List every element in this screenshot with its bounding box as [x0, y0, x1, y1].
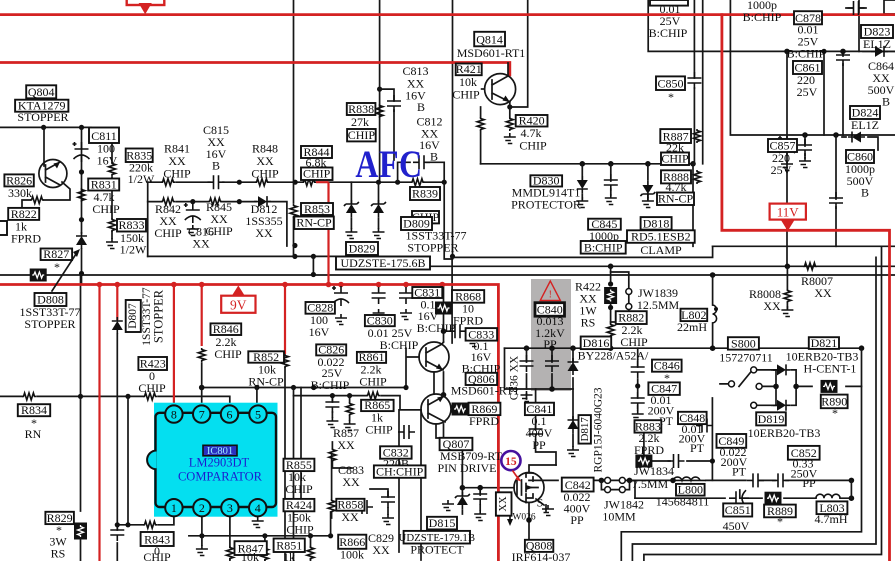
- svg-text:CHIP: CHIP: [286, 523, 314, 537]
- capacitor C830 label: [365, 315, 395, 326]
- wire: pin2 drop: [201, 516, 203, 545]
- svg-text:330k: 330k: [8, 186, 32, 200]
- svg-text:XX: XX: [192, 237, 210, 251]
- wire: left cap column: [116, 334, 118, 561]
- svg-text:BY228/A52A/: BY228/A52A/: [578, 349, 649, 363]
- junction: [79, 217, 84, 222]
- resistor R846 label: [211, 323, 242, 335]
- switch pole c: [751, 402, 757, 408]
- diode D824 label: [850, 106, 880, 119]
- svg-text:2: 2: [199, 501, 205, 515]
- wire: C840 leg: [551, 348, 553, 389]
- transistor Q804 label: [26, 85, 56, 98]
- wire: R890 row: [796, 385, 861, 387]
- svg-text:XX: XX: [498, 496, 509, 512]
- jumper JW1834 a: [605, 477, 611, 483]
- resistor R857a: [346, 402, 353, 416]
- svg-text:450V: 450V: [723, 519, 750, 533]
- resistor R869 label: [469, 403, 501, 415]
- capacitor C849 label: [717, 434, 747, 448]
- red branch: [116, 285, 118, 321]
- svg-text:CHIP: CHIP: [303, 167, 331, 181]
- svg-text:CHIP: CHIP: [154, 226, 182, 240]
- resistor R423 zigzag: [143, 393, 157, 400]
- resistor R420: [506, 117, 513, 131]
- junction: [859, 345, 865, 351]
- resistor R424 label: [284, 499, 315, 511]
- annotation arrow D808: [52, 254, 76, 291]
- capacitor C878 label: [794, 11, 822, 24]
- wire: long rail y246: [713, 245, 895, 247]
- svg-text:D807: D807: [127, 303, 139, 329]
- diode D808 label: [35, 293, 67, 306]
- junction: [608, 345, 614, 351]
- resistor R861 label: [357, 352, 386, 363]
- junction: [477, 485, 483, 491]
- net 11V: red feed right: [722, 15, 890, 561]
- capacitor C828 (polarized): [332, 286, 349, 306]
- wire: C845 leg: [610, 164, 612, 195]
- diode D807: [112, 317, 123, 334]
- ground: [373, 309, 385, 320]
- red supply box top: [127, 0, 165, 5]
- resistor R888: [694, 170, 701, 184]
- junction: [403, 385, 408, 390]
- svg-text:*: *: [54, 260, 60, 274]
- wire: R865 row to Q2 base: [294, 396, 422, 410]
- junction: [441, 392, 447, 398]
- op-amp U801 pin 2: [193, 499, 210, 516]
- capacitor C826 leg: [325, 396, 339, 413]
- junction: [79, 271, 84, 276]
- svg-text:PP: PP: [802, 476, 816, 490]
- svg-text:8: 8: [171, 408, 177, 422]
- wire: emitter resistor legs: [481, 107, 510, 164]
- svg-text:B:CHIP: B:CHIP: [584, 240, 623, 254]
- red branch R852: [284, 285, 286, 355]
- diode D812: [254, 196, 271, 207]
- resistor R834 label: [18, 404, 50, 416]
- junction: [670, 478, 676, 484]
- svg-text:RS: RS: [51, 547, 66, 561]
- svg-text:PROTECTOR: PROTECTOR: [511, 198, 581, 212]
- svg-text:EL1Z: EL1Z: [863, 37, 891, 51]
- svg-text:9V: 9V: [230, 298, 247, 313]
- op-amp U801 pin 5: [249, 405, 266, 422]
- junction: [293, 180, 298, 185]
- resistor R858 label: [336, 499, 364, 511]
- inductor L800 label: [676, 484, 705, 496]
- svg-text:RN-CP: RN-CP: [296, 216, 332, 230]
- diode D818 label: [641, 217, 672, 230]
- wire: D830 leg: [581, 164, 583, 199]
- wire: lower rail to protector diodes: [481, 163, 693, 165]
- resistor R882 2.2k: [607, 323, 614, 337]
- shaded hazard zone around C840: [531, 279, 571, 391]
- svg-text:4.7mH: 4.7mH: [815, 512, 848, 526]
- resistor R831 label: [88, 179, 119, 191]
- svg-text:15: 15: [505, 456, 517, 468]
- svg-text:1/2W: 1/2W: [128, 172, 155, 186]
- resistor R833 150k: [109, 218, 116, 232]
- junction: [442, 180, 447, 185]
- junction: [199, 533, 204, 538]
- switch pole d: [729, 381, 735, 387]
- wire: Q814 collector top: [510, 0, 528, 107]
- capacitor C841: [529, 423, 543, 440]
- resistor R827 label: [41, 249, 73, 261]
- svg-text:CHIP: CHIP: [285, 482, 313, 496]
- diode D816: [568, 358, 579, 375]
- zener D815: [455, 492, 470, 509]
- resistor R838 label: [347, 103, 376, 115]
- mosfet Q808: [514, 473, 544, 503]
- red branch pin8: [173, 285, 175, 406]
- junction: [311, 385, 316, 390]
- wire: R843 row: [117, 516, 174, 524]
- svg-text:PT: PT: [732, 465, 747, 479]
- capacitor C832 label: [380, 446, 412, 458]
- resistor R858: [328, 499, 335, 513]
- svg-text:B:CHIP: B:CHIP: [787, 47, 826, 61]
- resistor R822 label: [8, 208, 39, 220]
- wire: Q807 emitter chain: [434, 372, 445, 438]
- resistor R843 zigzag: [143, 521, 157, 528]
- svg-text:LM2903DT: LM2903DT: [189, 456, 250, 470]
- diode D807 label: [126, 300, 141, 332]
- capacitor C851 label: [723, 503, 752, 516]
- wire: R853 column from top: [293, 0, 295, 256]
- wire: D817 column: [572, 389, 574, 446]
- diode D830: [577, 176, 588, 193]
- svg-text:RGP15J-6040G23: RGP15J-6040G23: [593, 387, 605, 472]
- diode D819 label: [756, 412, 786, 425]
- wire: L802 column: [712, 275, 714, 348]
- junction: [441, 328, 447, 334]
- resistor R866 label: [338, 535, 366, 549]
- wire: R424 column: [300, 388, 302, 500]
- svg-text:145684811: 145684811: [656, 495, 710, 509]
- ground: [642, 197, 654, 208]
- junction: [311, 272, 316, 277]
- capacitor C850 label: [656, 76, 685, 90]
- svg-text:CHIP: CHIP: [519, 139, 547, 153]
- junction: [79, 125, 84, 130]
- capacitor C833 label: [466, 328, 498, 341]
- red arrow into rail: [139, 3, 152, 14]
- wire: R851 drop: [310, 536, 312, 561]
- svg-text:!: !: [549, 290, 552, 301]
- svg-text:D829: D829: [349, 242, 376, 256]
- resistor Q814 emitter left: [477, 117, 484, 131]
- op-amp U801 pin 7: [193, 405, 210, 422]
- wire: R841 C815 R848 row: [148, 181, 329, 183]
- svg-text:157270711: 157270711: [719, 351, 773, 365]
- svg-text:D821: D821: [811, 336, 838, 350]
- wire: C847 mid column: [637, 348, 639, 410]
- wire: R842 R845 D812 row: [148, 202, 287, 246]
- wire: JW1839 jumper column: [611, 272, 629, 322]
- svg-text:RD5.1ESB2: RD5.1ESB2: [631, 230, 691, 244]
- wire: D819 diode row: [772, 386, 796, 405]
- junction: [580, 161, 586, 167]
- svg-text:STOPPER: STOPPER: [152, 289, 166, 343]
- net 12V: top red rail: [0, 13, 895, 16]
- wire: R858 column: [331, 455, 333, 518]
- svg-text:D817: D817: [579, 417, 591, 442]
- switch S800 label: [728, 337, 759, 349]
- zener D811: [371, 200, 386, 217]
- resistor R831 4.7k: [78, 188, 85, 202]
- inductor L802 label: [681, 309, 708, 321]
- svg-text:R834: R834: [21, 403, 47, 417]
- boxed resistor R890: [821, 380, 838, 393]
- wire: C834 cap leg: [479, 488, 481, 510]
- transistor Q806 label: [466, 373, 498, 385]
- junction: [125, 394, 130, 399]
- svg-text:C836 XX: C836 XX: [509, 355, 521, 400]
- junction: [450, 254, 455, 259]
- resistor R839: [411, 179, 425, 186]
- capacitor C842 label: [562, 478, 594, 492]
- junction: [41, 125, 46, 130]
- junction L802 tap: [714, 307, 718, 311]
- switch pole b: [756, 383, 762, 389]
- resistor R844: [302, 179, 316, 186]
- svg-text:CH:CHIP: CH:CHIP: [376, 465, 424, 479]
- resistor R839 label: [410, 187, 440, 200]
- junction: [784, 49, 790, 55]
- capacitor C852: [772, 473, 789, 487]
- capacitor AFC coupling: [413, 155, 430, 169]
- svg-text:FPRD: FPRD: [469, 414, 499, 428]
- capacitor near C861 (polarized): [778, 136, 795, 156]
- ground C847: [632, 410, 644, 421]
- wire: C813/zener column: [379, 0, 381, 183]
- svg-text:B:CHIP: B:CHIP: [380, 338, 419, 352]
- red branch AFC: [316, 182, 329, 284]
- svg-text:D818: D818: [643, 216, 670, 230]
- capacitor C830: [372, 287, 386, 304]
- junction: [645, 161, 651, 167]
- capacitor C861 label: [793, 61, 822, 74]
- wire: C857 leg: [804, 135, 806, 158]
- wire: D818 leg: [647, 164, 649, 199]
- resistor R889 label: [764, 505, 796, 518]
- junction: [773, 384, 779, 390]
- transistor Q807 label: [440, 438, 473, 450]
- red branch: [98, 285, 100, 561]
- svg-text:7.5MM: 7.5MM: [632, 477, 669, 491]
- resistor R853 3.3k: [290, 204, 297, 218]
- junction: [377, 87, 382, 92]
- switch pole a: [751, 367, 757, 373]
- svg-text:25V: 25V: [797, 85, 818, 99]
- wire: R834 pin row: [0, 396, 230, 405]
- ground: [344, 420, 356, 431]
- svg-text:PT: PT: [690, 441, 705, 455]
- capacitor C832 type label: [374, 465, 426, 477]
- svg-text:C851: C851: [725, 503, 751, 517]
- diode D817: [568, 416, 579, 433]
- junction: [347, 393, 352, 398]
- wire: jog to lower rail: [0, 256, 895, 275]
- svg-text:CHIP: CHIP: [92, 202, 120, 216]
- diode D824: [848, 132, 865, 143]
- svg-text:CHIP: CHIP: [138, 381, 166, 395]
- resistor pin3: [226, 546, 233, 560]
- wire: W026 arrow: [509, 505, 511, 521]
- ground D815: [442, 500, 454, 511]
- wire: D807 column: [127, 396, 129, 524]
- resistor R826 330k: [30, 197, 44, 204]
- wire: C842 row: [529, 479, 851, 481]
- wire: D824 row: [842, 137, 878, 150]
- resistor R865 label: [361, 400, 394, 411]
- junction: [190, 199, 195, 204]
- diode D823 label: [861, 25, 893, 38]
- junction: [549, 345, 555, 351]
- wire: C860/D824 column: [835, 135, 837, 246]
- svg-text:B:CHIP: B:CHIP: [649, 26, 688, 40]
- capacitor C816 (polarized): [184, 203, 201, 223]
- capacitor C850: [687, 72, 701, 89]
- resistor R845: [208, 198, 222, 205]
- diode D823: [871, 46, 888, 57]
- svg-text:B: B: [212, 159, 220, 173]
- capacitor C833: [449, 324, 466, 338]
- zener D818: [640, 181, 655, 198]
- capacitor C811 (polarized): [73, 142, 90, 162]
- resistor R883 label: [635, 420, 662, 432]
- resistor R868 label: [452, 290, 484, 303]
- ground: [345, 228, 357, 239]
- svg-text:MSD601-RT1: MSD601-RT1: [457, 46, 526, 60]
- transistor Q808 label: [525, 540, 553, 552]
- boxed resistor R868: [435, 302, 452, 315]
- wire: emitter network R826: [22, 182, 70, 208]
- resistor R853 label: [301, 203, 333, 215]
- resistor R844 label: [301, 146, 332, 158]
- svg-text:CHIP: CHIP: [214, 347, 242, 361]
- svg-text:PP: PP: [570, 513, 584, 527]
- svg-text:B: B: [861, 186, 869, 200]
- ground: [781, 306, 793, 317]
- capacitor C813: [387, 95, 401, 112]
- svg-text:CHIP: CHIP: [359, 375, 387, 389]
- svg-text:5: 5: [255, 408, 261, 422]
- junction: [793, 384, 799, 390]
- wire: C841 column: [536, 389, 556, 465]
- svg-text:R838: R838: [348, 102, 374, 116]
- capacitor C846 mid: [631, 361, 645, 378]
- wire: R8008 leg: [786, 266, 788, 308]
- wire: D816 bus: [505, 347, 862, 349]
- svg-text:AFC: AFC: [355, 142, 422, 186]
- wire: top right small cap link: [846, 7, 866, 9]
- capacitor C828 label: [306, 302, 335, 314]
- resistor R847 label: [235, 541, 267, 555]
- inductor L803 label: [817, 501, 848, 514]
- svg-text:D819: D819: [758, 412, 785, 426]
- ground: [576, 197, 588, 208]
- svg-text:XX: XX: [763, 299, 781, 313]
- wire: C811/R831 column: [81, 127, 83, 233]
- resistor R851 label: [274, 539, 305, 553]
- capacitor C852 label: [788, 446, 820, 460]
- wire: C850 column pair: [693, 0, 703, 246]
- wire: Q804 base drop: [43, 127, 45, 166]
- boxed resistor R889: [765, 492, 782, 505]
- diode D829 label: [346, 242, 378, 255]
- ground D817: [567, 446, 579, 457]
- svg-text:R846: R846: [213, 322, 239, 336]
- transistor Q807b: [421, 394, 451, 424]
- wire: pin drive drop: [400, 410, 421, 560]
- capacitor C845 label: [588, 219, 621, 230]
- resistor R890 label: [821, 395, 848, 409]
- svg-text:PP: PP: [543, 337, 557, 351]
- svg-text:11V: 11V: [777, 205, 800, 220]
- wire: Q806 base feed: [406, 348, 419, 387]
- wire: Q814 column from top: [452, 0, 454, 256]
- svg-text:Q814: Q814: [476, 33, 503, 47]
- junction red: [97, 282, 103, 288]
- net: second red rail: [0, 63, 510, 76]
- svg-text:RN-CP: RN-CP: [658, 192, 694, 206]
- junction: [849, 495, 855, 501]
- capacitor C846 label mid: [652, 360, 682, 372]
- junction: [802, 132, 808, 138]
- ground: [382, 514, 394, 525]
- jumper JW1842 a: [605, 487, 611, 493]
- ground: [474, 510, 486, 521]
- junction: [115, 522, 120, 527]
- inductor L800: [673, 477, 706, 480]
- svg-text:FPRD: FPRD: [11, 232, 41, 246]
- svg-text:FPRD: FPRD: [634, 443, 664, 457]
- transistor Q806: [419, 342, 449, 372]
- svg-text:3: 3: [227, 501, 233, 515]
- svg-text:JW1834: JW1834: [634, 464, 674, 478]
- diode D816 label: [581, 337, 612, 350]
- resistor R829 label: [45, 512, 74, 524]
- junction: [308, 533, 313, 538]
- wire: R421 to base: [482, 88, 485, 90]
- wire: D823 branch: [859, 0, 895, 51]
- svg-text:*: *: [668, 90, 674, 104]
- boxed resistor R869: [452, 403, 469, 416]
- resistor R852 10k: [282, 354, 289, 368]
- svg-text:FPRD: FPRD: [453, 314, 483, 328]
- inductor L802: [713, 305, 717, 323]
- resistor R833 label: [117, 219, 146, 232]
- capacitor C840: [545, 355, 559, 372]
- wire: C878/C861 column: [786, 51, 788, 266]
- junction: [328, 533, 333, 538]
- junction: [79, 169, 84, 174]
- jumper JW1834 b: [619, 477, 625, 483]
- resistor R8007: [803, 263, 817, 270]
- svg-text:25V: 25V: [771, 163, 792, 177]
- zener D810: [344, 200, 359, 217]
- resistor R847: [261, 547, 268, 561]
- wire: long rail y266: [423, 265, 895, 267]
- op-amp U801 pin 3: [221, 499, 238, 516]
- junction: [608, 264, 614, 270]
- svg-text:R839: R839: [412, 187, 438, 201]
- wire: R855 column: [293, 388, 295, 561]
